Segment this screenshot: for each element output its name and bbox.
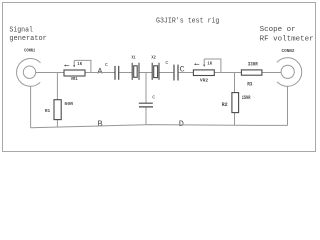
svg-text:VR2: VR2 [200,78,208,84]
svg-text:330R: 330R [248,62,259,68]
svg-text:R2: R2 [222,102,228,108]
svg-text:1K: 1K [77,61,82,67]
svg-text:generator: generator [9,35,46,43]
svg-text:R1: R1 [45,108,50,114]
svg-text:Signal: Signal [9,26,33,34]
svg-text:D: D [179,119,184,129]
svg-text:c: c [105,61,108,68]
svg-text:B: B [98,119,103,129]
svg-text:CONN2: CONN2 [282,48,295,54]
svg-text:Scope or: Scope or [260,26,296,34]
svg-text:R3: R3 [247,82,252,88]
svg-text:G3JIR's test rig: G3JIR's test rig [156,18,219,26]
svg-text:X2: X2 [151,55,155,61]
svg-text:c: c [165,59,168,66]
svg-text:A: A [97,66,103,76]
svg-text:50R: 50R [64,101,73,107]
svg-text:RF voltmeter: RF voltmeter [260,36,314,44]
svg-text:150R: 150R [242,95,251,101]
svg-text:VR1: VR1 [71,76,78,82]
svg-text:c: c [152,93,155,100]
svg-text:CONN1: CONN1 [24,48,35,54]
svg-text:1K: 1K [207,61,212,67]
svg-text:X1: X1 [132,55,136,61]
